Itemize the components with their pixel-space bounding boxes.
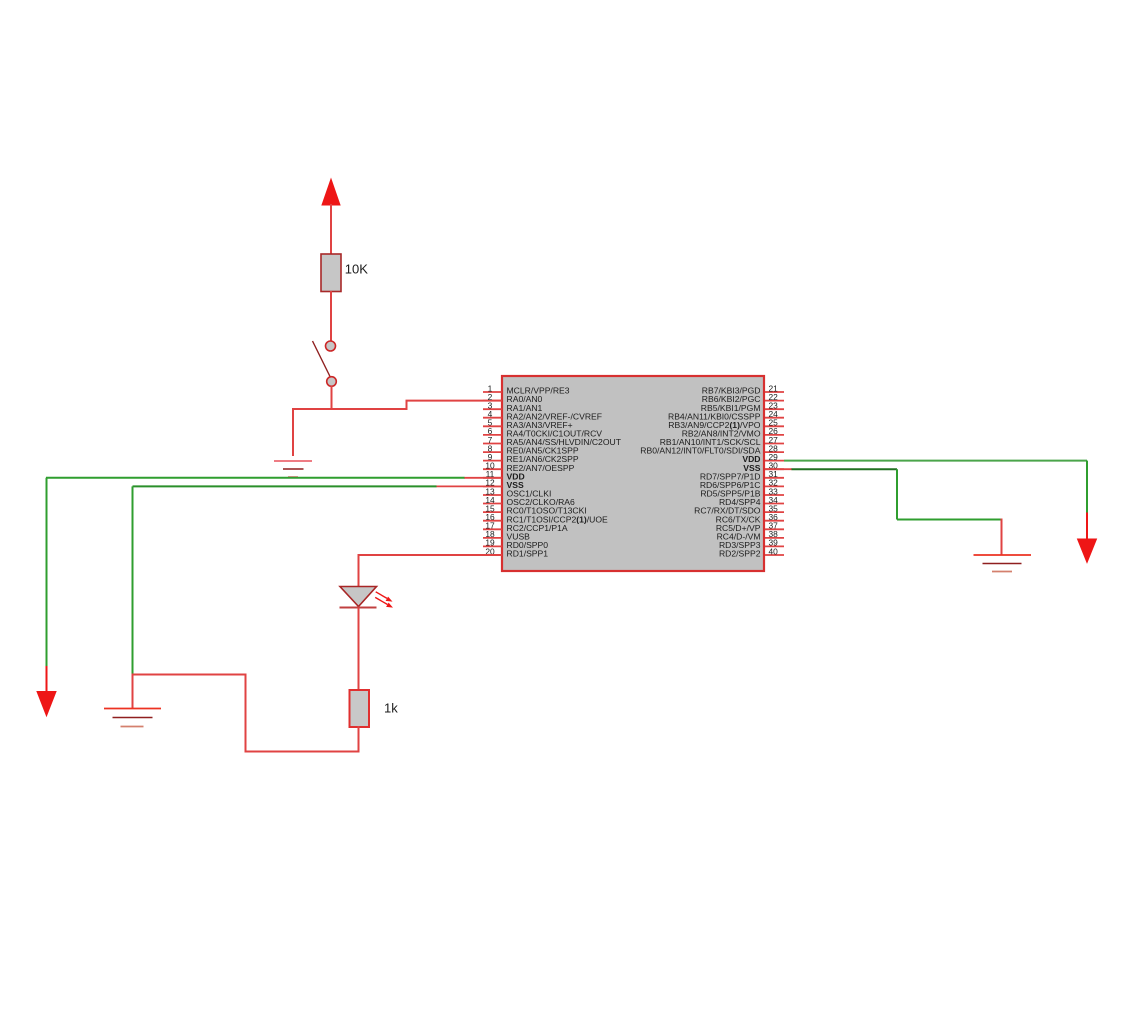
- power symbol down arrow right: [1078, 539, 1097, 563]
- U1 pin 20 (RD1/SPP1) stub + number + name: [483, 546, 548, 558]
- U1 pin 1 (MCLR/VPP/RE3) stub + number + name: [483, 383, 570, 395]
- resistor R2 body: [350, 690, 370, 727]
- U1 pin 39 (RD3/SPP3) stub + number + name: [719, 538, 784, 550]
- U1 pin 37 (RC5/D+/VP) stub + number + name: [716, 521, 784, 533]
- wire left to VSS junction: [132, 674, 247, 676]
- wire horizontal at node RA0: [293, 408, 407, 410]
- U1 pin 3 (RA1/AN1) stub + number + name: [483, 401, 543, 413]
- wire bottom horizontal: [246, 751, 360, 753]
- svg-text:1k: 1k: [384, 701, 398, 716]
- U1 pin 27 (RB1/AN10/INT1/SCK/SCL) stub + number + name: [660, 435, 784, 447]
- wire pin 30 VSS red tail: [765, 468, 792, 470]
- power symbol down arrow left: [37, 692, 56, 716]
- U1 pin 7 (RA5/AN4/SS/HLVDIN/C2OUT) stub + number + name: [483, 435, 622, 447]
- U1 pin 33 (RD5/SPP5/P1B) stub + number + name: [700, 486, 784, 498]
- U1 pin 35 (RC7/RX/DT/SDO) stub + number + name: [694, 503, 784, 515]
- wire VSS down (green): [896, 469, 898, 519]
- U1 pin 6 (RA4/T0CKI/C1OUT/RCV) stub + number + name: [483, 426, 602, 438]
- U1 pin 14 (OSC2/CLKO/RA6) stub + number + name: [483, 495, 575, 507]
- U1 pin 5 (RA3/AN3/VREF+) stub + number + name: [483, 418, 573, 430]
- U1 pin 13 (OSC1/CLKI) stub + number + name: [483, 486, 551, 498]
- switch SW1 top contact: [326, 341, 336, 351]
- wire down to ground GND2: [1001, 519, 1003, 556]
- U1 pin 40 (RD2/SPP2) stub + number + name: [719, 546, 784, 558]
- wire left rail down (green): [46, 478, 48, 666]
- U1 pin 26 (RB2/AN8/INT2/VMO) stub + number + name: [682, 426, 784, 438]
- wire down to LED anode: [358, 554, 360, 587]
- U1 pin 25 (RB3/AN9/CCP2(1)/VPO) stub + number + name: [668, 418, 784, 430]
- ground GND1 (small): [274, 461, 312, 477]
- wire VSS right to ground (green): [897, 519, 1002, 521]
- wire pin 30 VSS right (green): [792, 468, 898, 470]
- U1 pin 19 (RD0/SPP0) stub + number + name: [483, 538, 548, 550]
- microcontroller U1 PIC18F4550 body: [502, 376, 764, 571]
- wire power arrow to R1: [330, 204, 332, 255]
- wire junction to ground GND1: [292, 408, 294, 456]
- ground GND3: [104, 709, 161, 727]
- ground GND2: [974, 555, 1032, 572]
- U1 pin 23 (RB5/KBI1/PGM) stub + number + name: [701, 401, 784, 413]
- ground-arrow shaft right: [1086, 513, 1088, 541]
- wire up: [245, 675, 247, 753]
- wire VSS down (green): [132, 486, 134, 674]
- wire right rail down (green): [1086, 461, 1088, 513]
- U1 pin 38 (RC4/D-/VM) stub + number + name: [717, 529, 784, 541]
- U1 pin 24 (RB4/AN11/KBI0/CSSPP) stub + number + name: [668, 409, 784, 421]
- resistor R1 body: [321, 254, 341, 292]
- wire pin 20 RD1/SPP1 to LED: [359, 554, 503, 556]
- wire R2 down: [358, 726, 360, 752]
- U1 pin 18 (VUSB) stub + number + name: [483, 529, 530, 541]
- U1 pin 17 (RC2/CCP1/P1A) stub + number + name: [483, 521, 568, 533]
- wire pin 12 VSS left (green): [133, 485, 437, 487]
- U1 pin 22 (RB6/KBI2/PGC) stub + number + name: [702, 392, 784, 404]
- U1 pin 31 (RD7/SPP7/P1D) stub + number + name: [700, 469, 784, 481]
- U1 pin 29 (VDD) stub + number + name: [742, 452, 784, 464]
- LED D1 emission arrow 1: [376, 592, 393, 602]
- U1 pin 11 (VDD) stub + number + name: [483, 469, 525, 481]
- wire R1 to switch: [330, 291, 332, 341]
- wire junction to ground GND3: [132, 674, 134, 709]
- U1 pin 16 (RC1/T1OSI/CCP2(1)/UOE) stub + number + name: [483, 512, 608, 524]
- U1 pin 30 (VSS) stub + number + name: [743, 461, 784, 473]
- switch SW1 bottom contact: [327, 377, 337, 387]
- wire to pin 2 RA0/AN0: [406, 400, 503, 402]
- power symbol +V (up arrow): [322, 179, 340, 205]
- ground-arrow shaft left: [46, 666, 48, 692]
- wire vertical step: [406, 401, 408, 410]
- U1 pin 36 (RC6/TX/CK) stub + number + name: [716, 512, 784, 524]
- U1 pin 2 (RA0/AN0) stub + number + name: [483, 392, 543, 404]
- U1 pin 21 (RB7/KBI3/PGD) stub + number + name: [702, 383, 784, 395]
- svg-text:RD1/SPP1: RD1/SPP1: [507, 549, 549, 559]
- U1 pin 9 (RE1/AN6/CK2SPP) stub + number + name: [483, 452, 579, 464]
- LED D1 triangle: [340, 587, 377, 607]
- wire LED cathode to R2: [358, 608, 360, 692]
- U1 pin 28 (RB0/AN12/INT0/FLT0/SDI/SDA) stub + number + name: [640, 443, 784, 455]
- switch SW1 blade: [313, 341, 331, 378]
- svg-text:10K: 10K: [345, 262, 368, 277]
- U1 pin 34 (RD4/SPP4) stub + number + name: [719, 495, 784, 507]
- wire pin 11 VDD to left rail (green): [46, 477, 465, 479]
- LED D1 emission arrow 2: [375, 597, 393, 607]
- U1 pin 4 (RA2/AN2/VREF-/CVREF) stub + number + name: [483, 409, 602, 421]
- LED D1 cathode bar: [340, 607, 377, 609]
- svg-text:40: 40: [769, 546, 779, 556]
- wire switch to junction: [331, 386, 333, 410]
- wire pin 11 VDD red tail: [464, 477, 502, 479]
- U1 pin 32 (RD6/SPP6/P1C) stub + number + name: [700, 478, 784, 490]
- wire pin 12 VSS red tail: [436, 485, 502, 487]
- wire pin 29 VDD to right rail (green): [784, 460, 1087, 462]
- U1 pin 8 (RE0/AN5/CK1SPP) stub + number + name: [483, 443, 579, 455]
- U1 pin 12 (VSS) stub + number + name: [483, 478, 524, 490]
- U1 pin 15 (RC0/T1OSO/T13CKI) stub + number + name: [483, 503, 587, 515]
- U1 pin 10 (RE2/AN7/OESPP) stub + number + name: [483, 461, 575, 473]
- svg-text:RD2/SPP2: RD2/SPP2: [719, 549, 761, 559]
